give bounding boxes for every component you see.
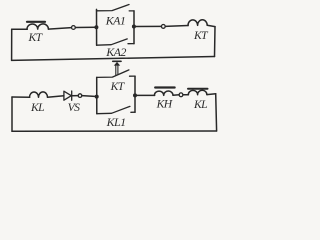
wire: top rail from junction to terminal circle <box>134 25 161 27</box>
wire: top rail from coil KT to terminal circle <box>48 28 71 30</box>
svg-text:KA2: KA2 <box>105 45 126 59</box>
node: left junction of KT/KL1 branch <box>95 95 99 99</box>
wire: top loop bottom rail <box>12 57 215 61</box>
node: left junction of KA branch <box>94 25 98 29</box>
wire: bottom loop left vertical <box>11 97 13 131</box>
wire: top rail segment to coil KT <box>12 28 28 30</box>
terminal circle (between KH and KL) <box>179 93 183 97</box>
terminal circle (top-right) <box>161 25 165 29</box>
coil KL (bottom-right) <box>188 90 207 95</box>
terminal circle (top-left) <box>72 26 76 30</box>
wire: rail to bottom loop top-right corner <box>207 93 216 96</box>
svg-text:KH: KH <box>156 98 173 111</box>
terminal circle (after diode) <box>78 94 82 98</box>
svg-text:KT: KT <box>28 31 44 44</box>
wire: top rail to top-right corner <box>207 25 215 26</box>
core bar of coil KH <box>155 86 174 88</box>
wire: from coil KH to terminal circle <box>173 94 179 97</box>
coil KH (thermal element) <box>154 91 173 95</box>
wire: from circle to coil KL <box>183 94 189 96</box>
wire: top rail from circle to node <box>75 26 96 28</box>
wire: bottom loop right vertical <box>215 94 218 131</box>
wire: KA branch right vertical <box>133 11 135 44</box>
contact KL1 (normally open) <box>97 106 135 113</box>
node: right junction of KA branch <box>132 25 136 29</box>
wire: bottom rail segment to coil KL <box>12 96 30 98</box>
svg-text:KT: KT <box>193 29 209 42</box>
wire: top rail from circle to coil KT right <box>165 25 188 28</box>
svg-text:KT: KT <box>110 80 126 93</box>
coil KL (bottom-left) <box>29 92 47 97</box>
svg-text:VS: VS <box>68 101 81 114</box>
diode VS <box>64 91 72 100</box>
svg-text:KL: KL <box>193 98 207 111</box>
wire: from coil KL to diode <box>48 96 64 97</box>
wire: rail from junction to coil KH <box>135 94 155 96</box>
core bar of coil KT <box>27 21 45 23</box>
svg-text:KL: KL <box>30 101 44 114</box>
wire: top loop left vertical <box>11 29 13 60</box>
svg-text:KA1: KA1 <box>105 13 126 27</box>
contact KA2 (normally open) <box>97 39 134 45</box>
coil KT (time relay coil, top-left) <box>27 24 48 29</box>
svg-text:KL1: KL1 <box>106 115 126 129</box>
node: right junction of KT/KL1 branch <box>133 93 137 97</box>
wire: branch left vertical <box>96 77 98 113</box>
coil KT (top-right) <box>188 20 207 26</box>
wire: bottom loop bottom rail <box>12 130 217 132</box>
wire: KA branch left vertical <box>96 9 98 45</box>
wire: top loop right vertical <box>214 27 217 57</box>
core bar of coil KL <box>188 88 208 90</box>
contact KT (delayed, normally open) <box>97 70 135 78</box>
wire: branch right vertical <box>134 76 136 112</box>
arrow: delayed action arrow on contact KT <box>113 61 121 75</box>
wire: from diode to terminal circle <box>72 95 78 97</box>
wire: from circle to node <box>82 95 97 98</box>
contact KA1 (normally open) <box>97 5 135 11</box>
